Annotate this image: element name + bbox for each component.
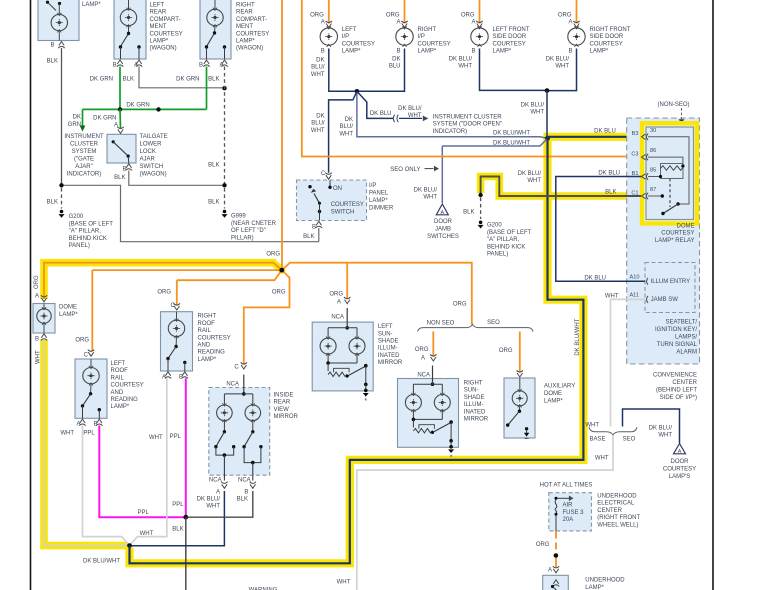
svg-text:NCA: NCA [209, 477, 222, 483]
svg-text:NCA: NCA [226, 382, 239, 388]
svg-text:(RIGHT FRONT: (RIGHT FRONT [597, 515, 640, 521]
svg-text:NCA: NCA [417, 373, 430, 379]
svg-text:LAMP*: LAMP* [111, 404, 130, 410]
relay pin 86 / C3 [642, 154, 649, 160]
svg-text:C: C [84, 353, 89, 359]
wire BLK courtesy switch to ground bus [318, 228, 320, 242]
junction BLK at x224 [222, 86, 226, 90]
svg-text:UNDERHOOD: UNDERHOOD [597, 493, 637, 499]
relay pin 87 / C1 [642, 193, 649, 199]
svg-text:BLU: BLU [389, 64, 401, 70]
svg-text:SHADE: SHADE [378, 339, 399, 345]
triangle connector A door jamb switches [436, 204, 448, 215]
svg-text:RIGHT FRONT: RIGHT FRONT [590, 27, 631, 33]
courtesy switch terminal B [316, 221, 322, 228]
courtesy switch arm [314, 194, 320, 204]
svg-text:(BASE OF LEFT: (BASE OF LEFT [69, 221, 114, 227]
svg-text:COURTESY: COURTESY [418, 41, 451, 47]
fuse AIR FUSE 3 20A [555, 497, 558, 500]
relay actuation dashed link [669, 179, 671, 208]
svg-text:JAMB SW: JAMB SW [651, 297, 679, 303]
svg-text:BLK: BLK [114, 175, 125, 181]
svg-text:WHT: WHT [60, 431, 74, 437]
svg-text:BEHIND KICK: BEHIND KICK [69, 236, 107, 242]
svg-text:B: B [244, 490, 248, 496]
wire DK BLU/WHT SEO to door courtesy lamps [623, 409, 680, 443]
svg-text:DOME: DOME [59, 305, 77, 311]
sun-shade dimmer [412, 411, 414, 420]
roof rail lamp box RIGHT [161, 312, 193, 371]
svg-text:FUSE 3: FUSE 3 [563, 510, 585, 516]
svg-text:A10: A10 [630, 275, 640, 281]
svg-text:INDICATOR): INDICATOR) [67, 172, 101, 178]
junction PPL/BLK [183, 515, 188, 520]
svg-text:DK BLU: DK BLU [370, 111, 392, 117]
svg-text:"A" PILLAR,: "A" PILLAR, [69, 229, 102, 235]
svg-text:COURTESY: COURTESY [342, 41, 375, 47]
svg-text:BLU/: BLU/ [311, 65, 325, 71]
svg-text:ORG: ORG [536, 542, 550, 548]
wire BLK dashed to G200 (right) [480, 198, 482, 220]
wire PPL left roof lamp [99, 426, 186, 518]
wire DK BLU/WHT junction to relay feed [357, 91, 548, 138]
svg-text:ORG: ORG [558, 13, 572, 19]
svg-text:(NEAR CNETER: (NEAR CNETER [231, 221, 277, 227]
relay armature [663, 204, 678, 214]
svg-text:B: B [122, 167, 126, 173]
svg-text:A: A [471, 20, 475, 26]
wire PPL right roof lamp [185, 378, 187, 517]
svg-text:READING: READING [198, 350, 226, 356]
svg-text:DK: DK [73, 115, 81, 121]
svg-text:RIGHT: RIGHT [418, 27, 437, 33]
mirror feed lead [243, 375, 245, 394]
svg-text:DK BLU: DK BLU [598, 171, 620, 177]
box3 switch [213, 31, 216, 34]
sun-shade mirror box LEFT [312, 322, 373, 391]
svg-text:SIDE DOOR: SIDE DOOR [493, 34, 527, 40]
wire WHT dome lamp return (core) [44, 341, 130, 546]
illum entry / jamb sw dashed box [645, 263, 695, 313]
svg-text:LAMP*: LAMP* [150, 39, 169, 45]
svg-text:C: C [170, 303, 175, 309]
svg-text:ORG: ORG [34, 275, 40, 289]
wire BLK from box1 to G200 [61, 48, 63, 185]
terminal B of box1 [58, 42, 64, 49]
svg-text:I/P: I/P [418, 34, 425, 40]
svg-text:INDICATOR): INDICATOR) [433, 129, 467, 135]
svg-text:ORG: ORG [266, 252, 280, 258]
svg-text:DK GRN: DK GRN [126, 103, 149, 109]
svg-text:B: B [321, 49, 325, 55]
svg-text:WHT: WHT [337, 580, 351, 586]
sun-shade internal ground [449, 445, 453, 449]
svg-text:DK GRN: DK GRN [93, 116, 116, 122]
wire BLK courtesy switch ground path [64, 185, 319, 241]
lamp box (top-left, partially cut) [38, 0, 79, 41]
svg-text:B: B [396, 49, 400, 55]
junction DK GRN at tailgate branch [118, 107, 122, 111]
svg-text:DK BLU/WHT: DK BLU/WHT [493, 140, 530, 146]
svg-text:LAMPS/: LAMPS/ [675, 335, 697, 341]
svg-text:LAMP* RELAY: LAMP* RELAY [655, 238, 695, 244]
svg-text:WHT: WHT [595, 456, 609, 462]
wire BLK relay 87 ground path (core) [481, 177, 641, 197]
mirror bulb right [245, 405, 261, 421]
svg-text:INSTRUMENT CLUSTER: INSTRUMENT CLUSTER [433, 114, 503, 120]
svg-text:*: * [364, 398, 367, 405]
svg-text:SUN-: SUN- [464, 388, 479, 394]
svg-text:(BEHIND LEFT: (BEHIND LEFT [656, 388, 697, 394]
auxiliary dome lamp box [504, 378, 535, 438]
wire BLK from box2 A [139, 67, 225, 88]
svg-text:BLK: BLK [303, 234, 314, 240]
svg-text:ORG: ORG [75, 338, 89, 344]
wire ORG to inside rear view mirror [244, 270, 290, 364]
svg-text:20A: 20A [563, 517, 574, 523]
svg-text:LEFT: LEFT [150, 3, 165, 9]
svg-text:DK BLU: DK BLU [594, 128, 616, 134]
svg-text:WHT: WHT [149, 435, 163, 441]
roof lamp terminals A and B [165, 372, 171, 379]
svg-text:LAMP*: LAMP* [82, 2, 101, 8]
lamp LEFT FRONT SIDE DOOR COURTESY LAMP* [479, 0, 481, 24]
dome lamp bulb [43, 304, 45, 310]
wire WHT below brace to page bottom [357, 436, 613, 590]
wire ORG to left roof rail lamp [92, 269, 280, 271]
svg-text:LOCK: LOCK [140, 149, 156, 155]
box2 bulb [128, 0, 130, 9]
svg-text:DK BLU/: DK BLU/ [197, 497, 221, 503]
svg-text:(WAGON): (WAGON) [236, 46, 263, 52]
wire ORG brace to right sun-shade mirror [432, 332, 434, 356]
svg-text:WHT: WHT [585, 422, 599, 428]
svg-text:B: B [471, 49, 475, 55]
svg-text:ILLUM ENTRY: ILLUM ENTRY [651, 279, 691, 285]
svg-text:DOOR: DOOR [671, 459, 690, 465]
svg-text:A: A [219, 63, 223, 69]
svg-text:SEO ONLY: SEO ONLY [390, 167, 420, 173]
svg-text:G200: G200 [69, 214, 84, 220]
svg-text:DK BLU/: DK BLU/ [546, 57, 570, 63]
svg-text:INSTRUMENT: INSTRUMENT [64, 134, 104, 140]
svg-text:RAIL: RAIL [111, 375, 125, 381]
svg-text:A: A [337, 300, 341, 306]
mirror terminals NCA A and NCA B [221, 482, 227, 489]
svg-text:AIR: AIR [563, 503, 574, 509]
svg-text:SIDE DOOR: SIDE DOOR [590, 34, 624, 40]
svg-text:LAMP*: LAMP* [59, 312, 78, 318]
svg-text:IGNITION KEY/: IGNITION KEY/ [655, 327, 697, 333]
svg-text:JAMB: JAMB [435, 226, 451, 232]
wire DK BLU/WHT left I/P lamp [329, 49, 357, 92]
sun-shade internal ground [364, 389, 368, 393]
svg-text:LOWER: LOWER [140, 142, 163, 148]
svg-text:RIGHT: RIGHT [464, 381, 483, 387]
svg-text:(BASE OF LEFT: (BASE OF LEFT [487, 230, 532, 236]
svg-text:LAMP*: LAMP* [369, 198, 388, 204]
svg-text:(WAGON): (WAGON) [150, 46, 177, 52]
lamp box1 bulb [58, 4, 60, 15]
svg-text:MIRROR: MIRROR [378, 360, 403, 366]
svg-text:NON SEO: NON SEO [427, 320, 455, 326]
svg-text:DK BLU/WHT: DK BLU/WHT [493, 131, 530, 137]
mirror switches [223, 421, 225, 432]
svg-text:BLK: BLK [208, 163, 219, 169]
wire BLK dashed from box3 A to G999 [224, 67, 226, 184]
svg-text:30: 30 [650, 128, 656, 134]
svg-text:WHT: WHT [36, 350, 42, 364]
svg-text:A: A [440, 210, 444, 216]
junction I/P lamps [355, 89, 360, 94]
svg-text:COURTESY: COURTESY [493, 41, 526, 47]
svg-text:INSIDE: INSIDE [274, 393, 294, 399]
sun-shade wiper arm [433, 423, 451, 433]
wire ORG to left sun-shade mirror [346, 263, 348, 299]
wire BLK to bottom of page [185, 517, 187, 590]
sun-shade mirror box RIGHT [398, 379, 459, 448]
wire DK BLU right I/P lamp [357, 49, 405, 92]
svg-text:RAIL: RAIL [198, 328, 212, 334]
svg-text:(NON-SEO): (NON-SEO) [658, 102, 690, 108]
wire ORG to right roof rail lamp [177, 270, 282, 280]
svg-text:ORG: ORG [461, 13, 475, 19]
svg-text:TURN SIGNAL: TURN SIGNAL [657, 342, 698, 348]
mirror rail A [216, 447, 234, 455]
svg-text:A: A [76, 422, 80, 428]
svg-text:A: A [216, 490, 220, 496]
junction WHT dome/roof lamps [127, 543, 132, 548]
svg-text:ORG: ORG [453, 302, 467, 308]
svg-text:LEFT: LEFT [342, 27, 357, 33]
relay coil [648, 157, 683, 165]
svg-text:WHT: WHT [311, 72, 325, 78]
svg-text:GRN: GRN [68, 122, 81, 128]
svg-text:ILLUM-: ILLUM- [378, 346, 398, 352]
sun-shade dimmer [327, 354, 329, 363]
lamp RIGHT FRONT SIDE DOOR COURTESY LAMP* [576, 0, 578, 24]
svg-text:ROOF: ROOF [111, 368, 129, 374]
svg-text:("GATE: ("GATE [74, 157, 94, 163]
svg-text:LAMP*: LAMP* [590, 49, 609, 55]
svg-text:AJAR": AJAR" [75, 164, 92, 170]
box2 switch [127, 32, 130, 35]
svg-text:LAMP*: LAMP* [585, 585, 604, 590]
svg-text:REAR: REAR [150, 10, 167, 16]
svg-text:MIRROR: MIRROR [274, 414, 299, 420]
svg-text:LAMP*: LAMP* [544, 399, 563, 405]
svg-text:PPL: PPL [170, 434, 182, 440]
svg-text:ORG: ORG [310, 13, 324, 19]
aux dome switch [518, 410, 521, 413]
svg-text:INATED: INATED [464, 409, 486, 415]
ground G200 (right) [479, 221, 483, 225]
junction DK GRN [156, 107, 160, 111]
svg-text:MIRROR: MIRROR [464, 417, 489, 423]
svg-text:DOME: DOME [544, 391, 562, 397]
wire BLK mirror B to PPL junction [188, 491, 253, 517]
svg-text:C3: C3 [631, 152, 638, 158]
wire ORG to dome lamp (core of highlight) [44, 263, 282, 299]
svg-text:COURTESY: COURTESY [198, 335, 231, 341]
convenience center dashed box [627, 118, 700, 364]
svg-text:DK BLU/: DK BLU/ [449, 57, 473, 63]
brace BASE / SEO [589, 427, 637, 435]
svg-text:CENTER: CENTER [672, 380, 697, 386]
svg-text:ELECTRICAL: ELECTRICAL [597, 501, 635, 507]
svg-text:LEFT: LEFT [111, 361, 126, 367]
svg-text:G200: G200 [487, 223, 502, 229]
svg-text:LAMP*: LAMP* [236, 39, 255, 45]
svg-text:ORG: ORG [499, 348, 513, 354]
svg-text:A: A [396, 20, 400, 26]
relay pin 85 / B1 [642, 173, 649, 179]
svg-text:ROOF: ROOF [198, 321, 216, 327]
right rear compartment courtesy lamp box [200, 0, 231, 59]
svg-text:VIEW: VIEW [274, 407, 290, 413]
triangle connector A door courtesy lamps [674, 444, 686, 454]
svg-text:PPL: PPL [172, 502, 184, 508]
svg-text:RIGHT: RIGHT [198, 314, 217, 320]
svg-text:ORG: ORG [157, 290, 171, 296]
svg-text:A: A [678, 449, 682, 455]
svg-text:ILLUM-: ILLUM- [464, 402, 484, 408]
svg-text:LAMP'S: LAMP'S [669, 474, 691, 480]
ground G200 (left) [60, 210, 64, 214]
svg-text:DK GRN: DK GRN [176, 77, 199, 83]
wire DK GRN to tailgate switch A [119, 109, 122, 128]
wire ORG east branch to NON SEO/SEO brace [282, 263, 472, 325]
svg-text:SUN-: SUN- [378, 331, 393, 337]
svg-text:SWITCH: SWITCH [140, 164, 164, 170]
svg-text:RIGHT: RIGHT [236, 3, 255, 9]
mirror rail B [244, 447, 261, 463]
svg-text:HOT AT ALL TIMES: HOT AT ALL TIMES [540, 483, 593, 489]
underhood lamp box [543, 575, 569, 590]
svg-text:PANEL): PANEL) [69, 243, 90, 249]
svg-text:UNDERHOOD: UNDERHOOD [585, 578, 625, 584]
wire DK BLU branch to instrument cluster (door open) [357, 91, 393, 118]
svg-text:LEFT: LEFT [378, 324, 393, 330]
svg-text:COURTESY: COURTESY [236, 31, 269, 37]
svg-text:A: A [35, 294, 39, 300]
highlight BLK relay ground path (yellow) [481, 177, 640, 197]
mirror bulb left [217, 405, 233, 421]
svg-text:OF LEFT "D": OF LEFT "D" [231, 228, 266, 234]
box3 terminals B and A [203, 60, 209, 67]
svg-text:DK BLU/: DK BLU/ [521, 103, 545, 109]
svg-text:86: 86 [650, 148, 656, 154]
svg-text:BLK: BLK [605, 189, 616, 195]
relay contact 87 [648, 195, 662, 197]
roof lamp switch [89, 392, 92, 395]
relay pin 30 / B3 [642, 134, 649, 140]
svg-text:B3: B3 [632, 131, 639, 137]
highlight WHT dome lamp return (yellow) [44, 340, 127, 546]
svg-text:B: B [179, 374, 183, 380]
svg-text:BLU/: BLU/ [340, 124, 354, 130]
svg-text:WHT: WHT [140, 531, 154, 537]
left rear compartment courtesy lamp box [114, 0, 146, 59]
svg-text:WHT: WHT [555, 64, 569, 70]
svg-text:ORG: ORG [272, 290, 286, 296]
svg-text:A: A [421, 356, 425, 362]
svg-text:BLK: BLK [237, 497, 248, 503]
svg-text:COMPART-: COMPART- [150, 17, 181, 23]
svg-text:COURTESY: COURTESY [150, 31, 183, 37]
svg-text:PANEL: PANEL [369, 191, 389, 197]
junction ORG main dot [279, 268, 284, 273]
svg-text:G999: G999 [231, 214, 246, 220]
svg-text:CLUSTER: CLUSTER [70, 142, 99, 148]
wire DK GRN to instrument cluster (gate ajar) [82, 109, 84, 125]
svg-text:WHT: WHT [423, 195, 437, 201]
svg-text:B: B [50, 43, 54, 49]
junction at G200 splice [59, 183, 63, 187]
svg-text:SWITCH: SWITCH [331, 210, 355, 216]
right sun-shade lead [432, 366, 434, 385]
svg-text:CONVENIENCE: CONVENIENCE [653, 373, 697, 379]
svg-text:COURTESY: COURTESY [111, 383, 144, 389]
roof lamp terminals A and B [79, 419, 85, 426]
tailgate lower lock ajar switch box [107, 134, 136, 163]
svg-text:B: B [199, 63, 203, 69]
wire DK BLU relay 85 to A10 [556, 177, 645, 282]
svg-text:B: B [112, 63, 116, 69]
svg-text:DOME: DOME [677, 223, 695, 229]
svg-text:LAMP*: LAMP* [418, 49, 437, 55]
left sun-shade lead [346, 308, 348, 328]
junction at relay feed [545, 136, 550, 141]
wire ORG fuse to underhood lamp [555, 531, 557, 539]
svg-text:I/P: I/P [369, 183, 376, 189]
wire DK GRN from box3 B [206, 67, 208, 110]
wire DK BLU/WHT right front door lamp [547, 49, 577, 91]
svg-text:COURTESY: COURTESY [661, 231, 694, 237]
svg-text:B: B [35, 337, 39, 343]
svg-text:DIMMER: DIMMER [369, 206, 394, 212]
svg-text:DK BLU/: DK BLU/ [649, 425, 673, 431]
wire DK BLU/WHT mirror A to junction [131, 491, 224, 546]
junction at G999 splice [222, 183, 226, 187]
svg-text:SYSTEM: SYSTEM [72, 149, 97, 155]
svg-text:WHT: WHT [339, 131, 353, 137]
svg-text:AJAR: AJAR [140, 157, 156, 163]
svg-text:WHT: WHT [527, 178, 541, 184]
svg-text:LAMP*: LAMP* [493, 49, 512, 55]
svg-text:WHT: WHT [658, 433, 672, 439]
svg-text:87: 87 [650, 187, 656, 193]
svg-text:LEFT FRONT: LEFT FRONT [493, 27, 530, 33]
wire DK GRN bus [83, 108, 207, 110]
tailgate switch internal [112, 140, 115, 143]
tailgate switch terminal B [126, 164, 132, 171]
sun-shade bulbs [320, 338, 336, 354]
highlight DK BLU/WHT loop to relay (yellow) [130, 137, 641, 564]
svg-text:(WAGON): (WAGON) [140, 172, 167, 178]
svg-text:AND: AND [111, 390, 124, 396]
svg-text:PILLAR): PILLAR) [231, 235, 254, 241]
svg-text:BLU/: BLU/ [311, 121, 325, 127]
svg-text:AND: AND [198, 343, 211, 349]
svg-text:CENTER: CENTER [597, 508, 622, 514]
tailgate switch terminal A [117, 127, 123, 134]
underhood electrical center dashed box [549, 493, 592, 531]
svg-text:PANEL): PANEL) [487, 252, 508, 258]
svg-text:DK BLU/WHT: DK BLU/WHT [83, 559, 120, 565]
wire ORG relay coil feed [302, 0, 640, 157]
svg-text:DK GRN: DK GRN [90, 77, 113, 83]
